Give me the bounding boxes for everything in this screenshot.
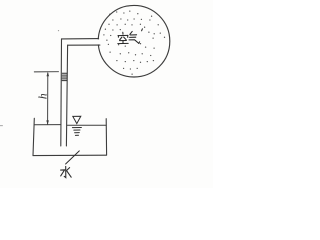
water surface line left of tube bbox=[34, 124, 61, 126]
container bottom bbox=[33, 154, 107, 156]
label 空气 (air), hand-drawn strokes bbox=[118, 29, 143, 44]
scan dash at left edge bbox=[0, 125, 3, 127]
svg-text:h: h bbox=[38, 93, 50, 99]
leader slash to water label bbox=[66, 151, 80, 164]
water surface line right of tube bbox=[67, 124, 106, 126]
water level symbol hatch lines bbox=[72, 128, 81, 136]
tube vertical inner wall (right) bbox=[66, 45, 67, 146]
dimension top tick line bbox=[34, 71, 58, 73]
water level symbol triangle bbox=[73, 116, 81, 123]
container right wall bbox=[105, 119, 107, 155]
scan speck near top bbox=[58, 30, 59, 31]
空 bbox=[122, 32, 124, 34]
label 水 (water), hand-drawn strokes bbox=[61, 166, 72, 177]
label h (italic, rotated) bbox=[38, 93, 50, 99]
tube horizontal inner wall (bottom) bbox=[68, 44, 100, 46]
气 bbox=[130, 31, 132, 34]
flask circle (air bulb) bbox=[96, 5, 169, 77]
water level hatch block inside tube bbox=[62, 73, 67, 80]
tube horizontal outer wall (top) bbox=[62, 38, 99, 40]
tube vertical outer wall (left) bbox=[60, 39, 63, 146]
air dots inside flask bbox=[103, 10, 165, 74]
dimension line h (vertical with arrows) bbox=[46, 72, 49, 125]
container left wall bbox=[33, 118, 34, 155]
